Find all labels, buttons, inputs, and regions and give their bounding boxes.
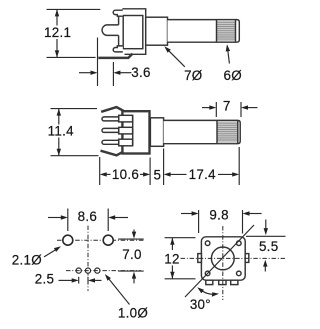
svg-text:6Ø: 6Ø [223,68,241,83]
vertical centerline view4 [222,226,224,300]
small hole 3 [95,268,100,273]
bottom tab 1 [206,280,213,284]
svg-text:7.0: 7.0 [122,247,142,262]
leader 2.1dia [44,249,58,257]
svg-text:12.1: 12.1 [44,25,71,40]
dimension 7 right extension line [240,102,242,117]
anti-rotation bump [102,25,119,36]
dimension 11.4 top extension line [51,108,98,110]
pin 1 tip [102,117,119,121]
front plate edge lower [118,35,120,46]
svg-text:5: 5 [154,168,162,183]
knurl right boundary view1 [235,20,237,43]
dimension 17.4 arrows [168,173,187,175]
dimension 2.5 right arrow [95,279,102,281]
tick below small hole 1 [78,277,80,284]
dimension 9.8 right arrow [249,213,262,215]
pin 3 tip [102,140,119,144]
knurled section view1 [217,20,236,41]
top mounting tab view2 [101,107,123,112]
bent solder pin [98,54,132,58]
top pin tab view1 [113,10,123,16]
svg-text:5.5: 5.5 [259,239,279,254]
svg-text:7Ø: 7Ø [184,68,202,83]
dimension 12 bottom extension line [165,278,196,280]
dimension 9.8 right extension line [242,210,244,234]
dimension 12.1 arrow line lower [56,39,58,57]
dimension 12 top extension line [165,237,196,239]
svg-text:10.6: 10.6 [112,167,139,182]
body view4 [201,237,245,280]
arrowhead down 12.1 [55,50,59,57]
front plate edge upper [118,15,120,25]
dimension 11.4 arrow line lower [58,138,60,156]
inner recess rectangle view1 [123,16,143,49]
svg-text:11.4: 11.4 [48,123,75,138]
svg-text:12: 12 [164,251,180,266]
svg-text:1.0Ø: 1.0Ø [118,305,148,320]
dimension 12 arrow line upper [171,238,173,250]
svg-text:30°: 30° [190,297,211,312]
arrowhead down 12 [170,272,174,279]
dimension 12.1 bottom extension line [47,56,96,58]
dimension 8.6 right arrow [115,217,128,219]
small hole 1 [76,268,81,273]
hole left 2.1dia [63,235,73,245]
dimension 3.6 right arrow [119,72,132,74]
pin 3 base [119,139,133,146]
knurl left boundary view1 [216,20,218,43]
bottom tab 2 [219,280,226,284]
center circle view4 [211,247,234,270]
horizontal centerline view4 [181,257,287,259]
pin 1 base [119,115,133,122]
arrowhead up 12 [170,238,174,245]
svg-text:17.4: 17.4 [189,167,217,182]
corner hole bottom-left [205,271,210,276]
dimension 7.0 top line [118,238,144,240]
corner hole top-left [205,241,210,246]
shaft view2 [164,120,241,143]
dimension 7 right arrow [247,107,258,109]
dimension 7.0 up arrow [133,278,135,284]
horizontal centerline small holes [66,270,141,272]
extension line A for 3.6 [97,38,99,87]
dimension 11.4 arrow line upper [58,109,60,125]
dimension 10.6 arrows [105,173,111,175]
dimension 12 arrow line lower [171,266,173,279]
right side tab view4 [245,254,249,263]
dimension 3.6 left arrow [79,72,92,74]
leader 7dia [168,50,185,67]
bushing view1 [146,17,168,45]
knurl left boundary view2 [216,120,218,143]
leader 6dia [228,51,230,64]
svg-text:2.5: 2.5 [35,272,55,287]
dimension 9.8 left arrow [181,213,192,215]
bottom tab 3 [231,280,238,284]
extension line pins tips [99,157,101,185]
hole right 2.1dia [103,235,113,245]
dimension 5.5 top reference line [246,235,286,237]
tick below small hole 2 [87,277,89,284]
svg-text:7: 7 [223,98,231,113]
svg-text:8.6: 8.6 [78,209,98,224]
extension line right hole [107,209,109,232]
left side tab view4 [198,254,202,263]
vertical centerline footprint [87,226,89,292]
knurled section view2 [217,121,238,143]
dimension 11.4 bottom extension line [51,155,99,157]
corner hole top-right [237,241,242,246]
dimension 7 left arrow [202,107,211,109]
dimension 7.0 down arrow [133,230,135,234]
dimension 5.5 down arrow [265,220,267,230]
pin carrier line [132,115,134,146]
horizontal centerline holes [57,239,144,241]
dimension 7.0 bottom line [118,270,144,272]
arrowhead up 12.1 [55,9,59,16]
leader 1.0dia [109,279,130,305]
extension line body right [149,158,151,186]
small hole 2 [85,268,90,273]
dimension 5.5 up arrow [264,266,266,272]
body view2 thick outline [122,111,149,153]
corner hole bottom-right [237,271,242,276]
extension line left hole [67,209,69,232]
bushing view2 [150,118,163,147]
rotation diagonal line [185,225,254,297]
extension line B for 3.6 [112,62,114,86]
svg-text:9.8: 9.8 [209,207,229,222]
bottom pin tab view1 [113,46,123,52]
extension line shaft tip [238,147,240,185]
body outline view1 [122,9,145,55]
dimension 12.1 arrow line upper [56,9,58,25]
svg-text:2.1Ø: 2.1Ø [12,253,42,268]
arrowhead up 11.4 [57,109,61,116]
shaft view1 [168,20,240,43]
bottom mounting tab view2 [101,151,124,156]
dimension 9.8 left extension line [198,210,200,233]
dimension 8.6 left arrow [48,217,61,219]
pin 2 tip [102,128,119,132]
extension line bushing right [163,149,165,186]
dimension 2.5 left arrow [59,279,73,281]
dimension 12.1 top extension line [47,8,101,10]
dimension 7 left extension line [215,102,217,117]
arrowhead down 11.4 [57,149,61,156]
knurl right boundary view2 [237,120,239,143]
svg-text:3.6: 3.6 [131,65,151,80]
30 degree double arrow arc [200,289,217,294]
pin 2 base [119,127,133,134]
